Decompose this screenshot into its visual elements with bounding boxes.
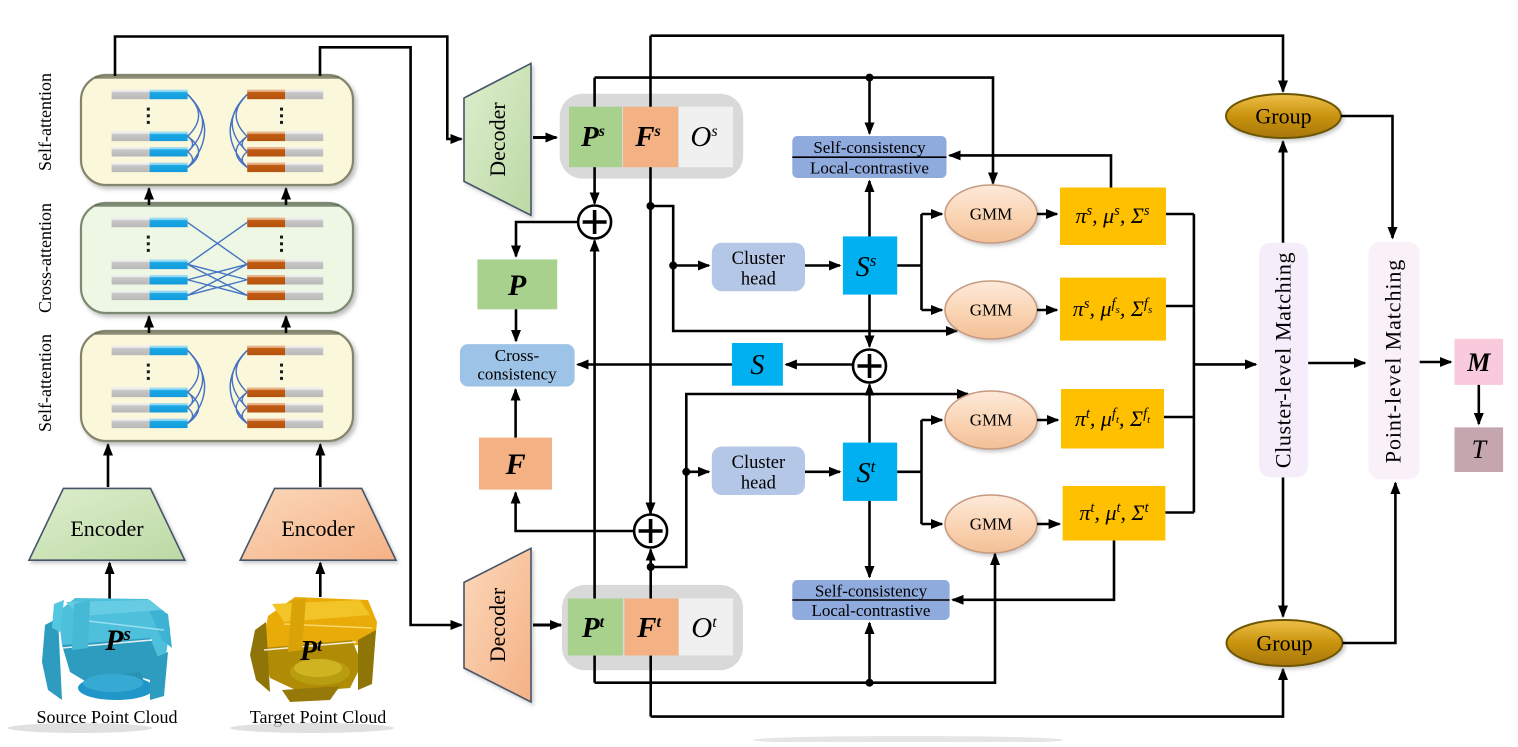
wire P^t top to oplus1 (593, 241, 596, 599)
wire group top to point-level matching (1341, 116, 1393, 238)
arrow S^t top to oplus3 (868, 385, 871, 443)
ground shadow bottom center (753, 736, 1063, 744)
S^t box (843, 443, 897, 501)
yellow box pi^t mu^t Sigma^t (1063, 486, 1166, 541)
wire F^s top to Group (top) (651, 36, 1284, 92)
svg-text:GMM: GMM (970, 515, 1013, 534)
arrow GMM4 to yellow box 4 (1037, 523, 1060, 526)
junction cluster head 2 feed (682, 468, 690, 476)
cluster head 1 box (712, 243, 805, 292)
arrow cluster-level to point-level matching (1308, 362, 1365, 365)
encoder (target, orange) (240, 488, 396, 560)
svg-text:Decoder: Decoder (485, 587, 510, 662)
wire P^t bottom segment (593, 656, 596, 683)
arrow F to cross-consistency (514, 390, 517, 438)
S box (732, 343, 783, 386)
oplus node 1 (P^s + P^t) (578, 206, 611, 239)
arrow block3 to block2 right (285, 317, 288, 334)
T box (1455, 427, 1504, 472)
arrow junction to cluster head 2 (686, 470, 709, 473)
svg-text:Local-contrastive: Local-contrastive (812, 601, 931, 620)
arrow P to cross-consistency (515, 309, 518, 341)
arrow S^s bottom to oplus3 (868, 295, 871, 347)
self-consistency / local-contrastive box (bottom) (792, 580, 949, 620)
svg-text:Cross-: Cross- (495, 346, 540, 365)
arrow GMM3 to yellow box 3 (1037, 419, 1058, 422)
P box (477, 259, 557, 309)
arrow encoder to attention stack (source) (107, 445, 110, 488)
GMM ellipse 2 (945, 281, 1037, 339)
arrow GMM2 to yellow box 2 (1037, 309, 1057, 312)
M box (1455, 339, 1504, 385)
svg-text:Self-consistency: Self-consistency (813, 138, 926, 157)
arrow target cloud to encoder (319, 563, 322, 597)
wire attention top to decoder (source) (115, 37, 462, 140)
svg-text:Encoder: Encoder (70, 516, 144, 541)
wire group bottom to point-level matching (1343, 483, 1396, 643)
source point cloud (blue scan) (42, 598, 172, 700)
wire F^t bottom segment (649, 656, 652, 717)
self-attention block 2 (bottom) (81, 331, 353, 441)
GMM ellipse 1 (945, 185, 1037, 243)
svg-text:GMM: GMM (970, 411, 1013, 430)
PFO container (target) (562, 585, 743, 670)
P^s box (569, 107, 622, 168)
wire S^t right to GMM3 and GMM4 (897, 470, 921, 473)
wire F^t to GMM3 branch (651, 394, 968, 567)
svg-text:Group: Group (1255, 104, 1311, 129)
svg-text:P: P (507, 269, 527, 302)
wire oplus3 to S box (786, 363, 853, 366)
svg-text:F: F (505, 448, 526, 481)
svg-text:GMM: GMM (970, 205, 1013, 224)
wire yellow box 1 top to self-consistency right (950, 155, 1112, 187)
svg-text:GMM: GMM (970, 301, 1013, 320)
group ellipse (top) (1226, 94, 1341, 138)
self-consistency / local-contrastive box (top) (792, 136, 946, 178)
PFO container (source) (560, 94, 744, 179)
svg-text:Local-contrastive: Local-contrastive (810, 159, 929, 178)
cross-attention block (81, 203, 353, 313)
junction F^s split (647, 202, 655, 210)
wire S^s right to GMM1 and GMM2 (897, 264, 921, 267)
arrow block2 to block1 left (148, 189, 151, 206)
svg-text:Self-consistency: Self-consistency (815, 582, 928, 601)
svg-text:Self-attention: Self-attention (35, 73, 55, 171)
bus wire from yellow boxes (1166, 213, 1194, 216)
svg-text:Cluster: Cluster (732, 249, 785, 269)
wire P^s top segment (593, 78, 596, 107)
arrow encoder to attention stack (target) (319, 445, 322, 488)
arrow decoder to PFO container (source) (533, 136, 557, 139)
svg-text:head: head (741, 474, 777, 494)
arrow source cloud to encoder (108, 563, 111, 600)
arrow junction to self-consistency top (868, 78, 871, 134)
decoder (source, green) (464, 63, 531, 215)
wire F^s top segment (649, 36, 652, 107)
wire oplus1 to P box (516, 222, 579, 256)
svg-text:Cluster: Cluster (732, 453, 785, 473)
O^t box (679, 599, 733, 656)
ground shadow middle (230, 723, 394, 733)
wire S to cross-consistency (578, 363, 732, 366)
GMM ellipse 3 (945, 391, 1037, 449)
arrow cluster head 1 to S^s (805, 264, 840, 267)
svg-text:M: M (1466, 348, 1491, 377)
arrow block2 to block1 right (285, 189, 288, 206)
svg-text:S: S (750, 350, 764, 381)
encoder (source, green) (29, 488, 185, 560)
arrow M to T (1478, 385, 1481, 424)
decoder (target, orange) (464, 548, 531, 702)
self-attention block 1 (top) (81, 75, 353, 185)
wire P^s top to self-consistency and GMM1 (595, 78, 993, 184)
svg-text:consistency: consistency (477, 365, 557, 384)
svg-text:Self-attention: Self-attention (35, 334, 55, 432)
target point cloud (gold scan) (250, 597, 377, 702)
cluster head 2 box (712, 447, 805, 496)
arrow junction to self-consistency 2 bottom (868, 623, 871, 683)
P^t box (568, 599, 623, 656)
S^s box (843, 236, 897, 294)
F box (479, 438, 552, 490)
yellow box pi^s mu^fs Sigma^fs (1060, 278, 1166, 341)
svg-text:Cluster-level Matching: Cluster-level Matching (1271, 252, 1296, 468)
junction F^t split (647, 563, 655, 571)
svg-text:head: head (741, 270, 777, 290)
GMM ellipse 4 (945, 495, 1037, 553)
yellow box pi^t mu^ft Sigma^ft (1061, 389, 1164, 449)
point-level matching box (1368, 242, 1419, 480)
junction on P^s wire (866, 74, 874, 82)
arrow cluster-level matching to group bottom (1282, 478, 1285, 617)
F^t box (624, 599, 678, 656)
arrow bus to cluster-level matching (1194, 363, 1256, 366)
oplus node 3 (S^s + S^t) (853, 350, 886, 383)
svg-text:Cross-attention: Cross-attention (35, 203, 55, 313)
cluster-level matching box (1259, 243, 1308, 478)
svg-text:πt​, μt​, Σt​: πt​, μt​, Σt​ (1079, 500, 1149, 525)
junction cluster head 1 feed (669, 262, 677, 270)
junction SC2 feed (866, 679, 874, 687)
wire F^s to cluster head 1 branch (651, 206, 958, 331)
arrow S^t bottom to self-consistency 2 top (868, 501, 871, 577)
wire F^t bottom to Group 2 (651, 669, 1283, 717)
arrow junction to cluster head 1 (673, 264, 709, 267)
group ellipse (bottom) (1227, 620, 1343, 666)
wire F^s down to oplus2 (649, 206, 652, 514)
wire yellow box 4 bottom to self-consistency 2 right (953, 541, 1114, 600)
wire F^t top to oplus2 (649, 550, 652, 599)
wire P^s bottom to oplus1 (593, 167, 596, 203)
O^s box (679, 107, 733, 168)
wire P^t bottom to SC2 and GMM4 (595, 554, 995, 683)
svg-text:T: T (1472, 435, 1488, 464)
arrow GMM1 to yellow box 1 (1037, 213, 1057, 216)
arrow cluster-level matching to group top (1282, 142, 1285, 243)
svg-text:Decoder: Decoder (485, 102, 510, 177)
F^s box (623, 107, 678, 168)
yellow box pi^s mu^s Sigma^s (1060, 188, 1166, 246)
wire oplus2 to F box (516, 493, 635, 531)
svg-text:Point-level Matching: Point-level Matching (1381, 259, 1406, 463)
oplus node 2 (F^s + F^t) (634, 515, 667, 548)
arrow block3 to block2 left (148, 317, 151, 334)
wire F^s bottom segment (649, 167, 652, 206)
wire attention top to decoder (target) (320, 47, 462, 625)
arrow cluster head 2 to S^t (805, 470, 840, 473)
arrow S^s top to self-consistency bottom (868, 181, 871, 236)
cross-consistency box (460, 344, 575, 386)
arrow decoder to PFO container (target) (533, 624, 561, 627)
svg-text:Group: Group (1256, 631, 1312, 656)
arrow point-level matching to M (1420, 361, 1451, 364)
svg-text:Encoder: Encoder (281, 516, 355, 541)
ground shadow left (8, 723, 152, 733)
